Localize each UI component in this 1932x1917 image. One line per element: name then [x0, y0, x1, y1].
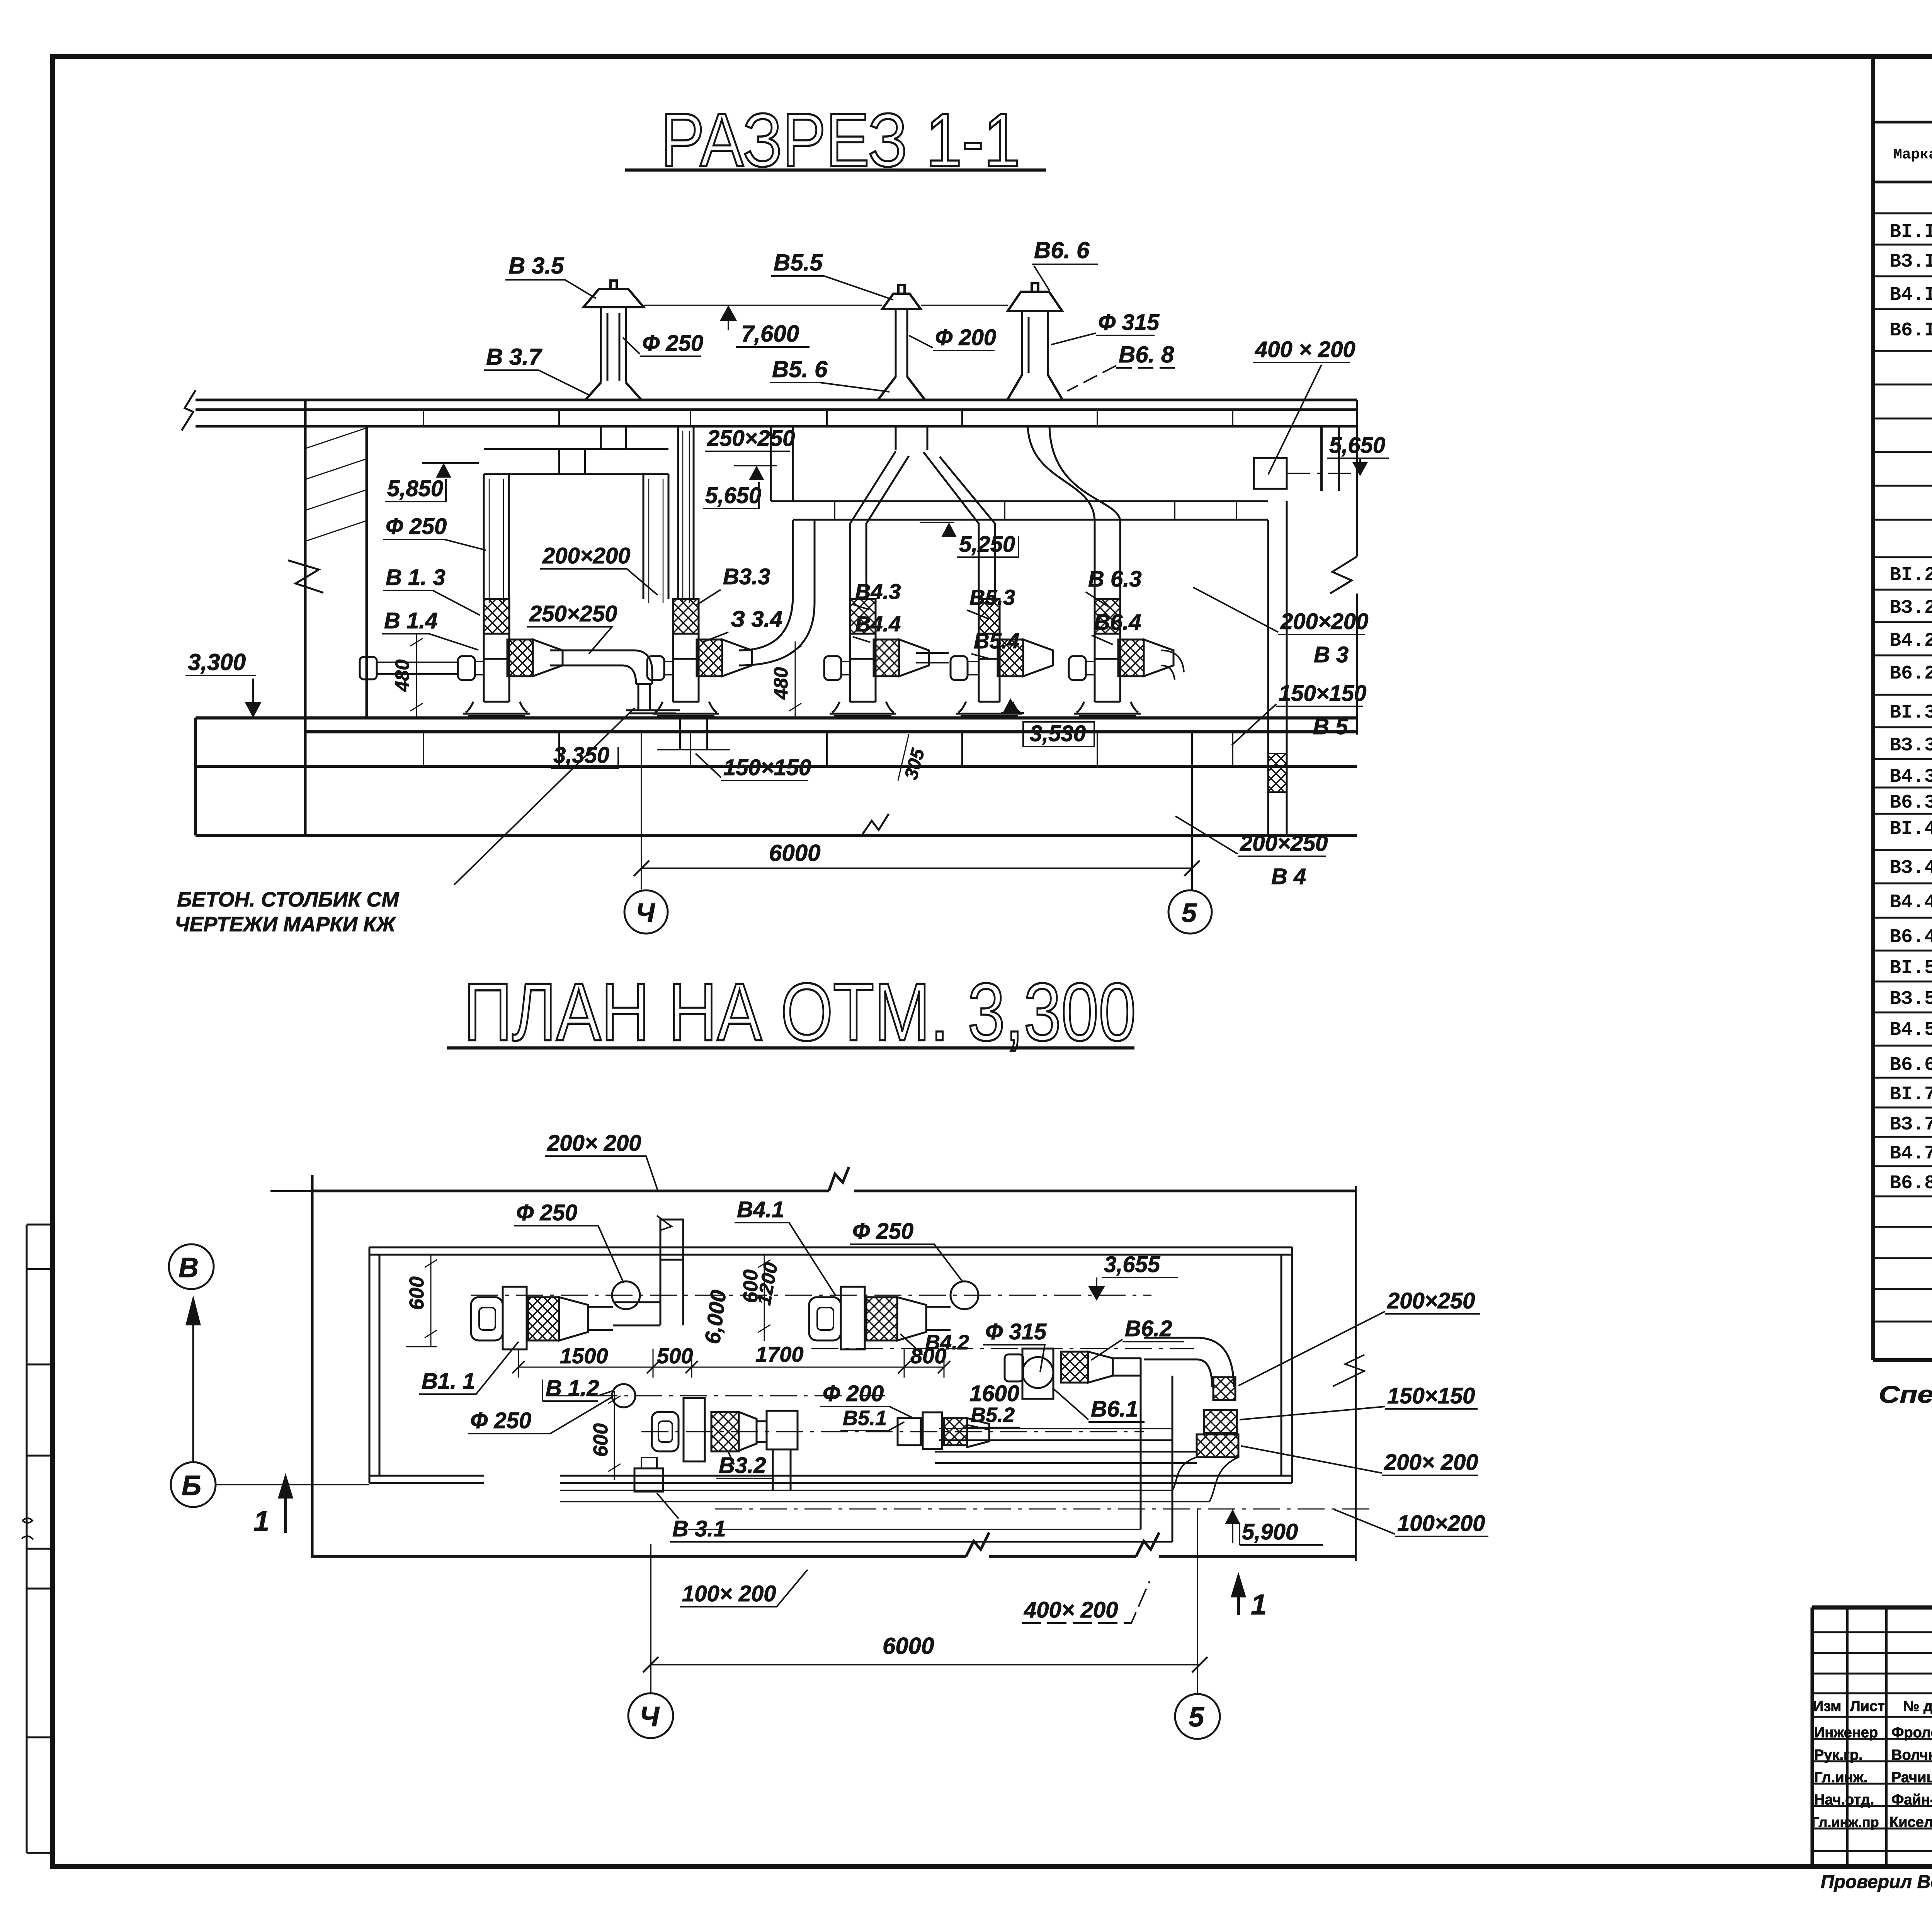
svg-text:В6.6: В6.6 [1889, 1054, 1932, 1076]
svg-text:1: 1 [1251, 1589, 1267, 1621]
svg-text:Ф 250: Ф 250 [516, 1200, 577, 1225]
svg-text:З 3.4: З 3.4 [731, 607, 782, 632]
dimension chain line [519, 1367, 944, 1368]
fan В4.1 motor [809, 1297, 841, 1340]
svg-text:200× 200: 200× 200 [547, 1131, 641, 1156]
svg-text:3,530: 3,530 [1030, 721, 1086, 746]
duct down-run 400x200 [1141, 1358, 1172, 1542]
svg-text:В 5: В 5 [1313, 714, 1348, 739]
svg-text:1700: 1700 [755, 1342, 804, 1366]
axis line 3,655 duct [811, 1348, 1194, 1349]
inner room bottom wall [369, 1476, 1292, 1483]
outlet cone [533, 640, 563, 676]
floor slab [196, 718, 1357, 835]
exhaust stack В3.5 pipe [601, 307, 626, 383]
left rows [1812, 1632, 1932, 1851]
duct В4.1 run [926, 1307, 951, 1330]
fan casing [979, 634, 1000, 702]
fan casing [673, 634, 699, 702]
400x200 wall box [1254, 458, 1287, 489]
svg-text:Ф 200: Ф 200 [823, 1381, 884, 1406]
motor shaft [1086, 662, 1095, 675]
svg-text:400 × 200: 400 × 200 [1255, 337, 1355, 362]
svg-text:200× 200: 200× 200 [1384, 1450, 1478, 1475]
svg-text:В6.8: В6.8 [1889, 1172, 1932, 1194]
svg-text:7,600: 7,600 [741, 321, 799, 347]
outlet cone [1023, 640, 1053, 676]
svg-text:Ф 250: Ф 250 [642, 331, 703, 356]
fan motor [1069, 656, 1086, 680]
svg-text:200×200: 200×200 [1280, 609, 1368, 634]
svg-text:ВI.2: ВI.2 [1889, 564, 1932, 586]
outlet cone [899, 640, 929, 676]
fan В4.1 flex [866, 1297, 897, 1340]
svg-text:ВЗ.3: ВЗ.3 [1889, 735, 1932, 757]
svg-text:В 6.3: В 6.3 [1088, 566, 1142, 592]
svg-text:200×200: 200×200 [542, 543, 630, 568]
hatch box 200x200 [1197, 1434, 1238, 1457]
svg-text:480: 480 [770, 667, 792, 700]
7,600 level line [644, 305, 1008, 306]
plan grid circle 5 [1175, 1694, 1220, 1739]
svg-text:В1. 1: В1. 1 [422, 1369, 475, 1394]
outlet flex [697, 640, 722, 676]
svg-text:250×250: 250×250 [707, 426, 795, 451]
svg-text:Рачицкий: Рачицкий [1891, 1769, 1932, 1786]
left wall break [288, 560, 323, 593]
flex insert [673, 599, 699, 634]
svg-text:Рук.гр.: Рук.гр. [1814, 1747, 1863, 1763]
В1 discharge duct [550, 650, 652, 684]
svg-text:Фролова: Фролова [1891, 1725, 1932, 1741]
duct cross circle Ф250 right [951, 1281, 978, 1309]
svg-text:ВI.4: ВI.4 [1889, 818, 1932, 840]
duct riser to stack В3.5 [601, 426, 626, 449]
svg-text:Волчкина: Волчкина [1891, 1747, 1932, 1763]
duct В5 riser [923, 452, 995, 599]
svg-text:200×250: 200×250 [1387, 1288, 1475, 1313]
duct 250x250 riser at left of run [771, 426, 793, 501]
duct В6 to down-run [1113, 1358, 1141, 1376]
fan В5 unit [898, 1418, 921, 1445]
svg-text:В4.1: В4.1 [737, 1197, 784, 1222]
fold strip marks [22, 1518, 33, 1539]
svg-text:Ф 250: Ф 250 [470, 1408, 531, 1433]
svg-text:ВЗ.7: ВЗ.7 [1889, 1114, 1932, 1136]
svg-text:Ч: Ч [636, 898, 655, 928]
svg-text:3,300: 3,300 [188, 649, 246, 675]
svg-text:150×150: 150×150 [1387, 1383, 1475, 1408]
hatch box 150x150 [1204, 1410, 1237, 1433]
svg-text:В 1.4: В 1.4 [384, 608, 438, 633]
flex insert [1095, 599, 1120, 634]
svg-text:В6.3: В6.3 [1889, 792, 1932, 814]
svg-text:В6.2: В6.2 [1125, 1316, 1172, 1341]
svg-text:ВI.3: ВI.3 [1889, 702, 1932, 724]
fan base [653, 702, 719, 716]
roof left break [182, 390, 196, 430]
svg-text:Ч: Ч [639, 1701, 660, 1732]
svg-text:150×150: 150×150 [723, 755, 811, 780]
section cut mark left [284, 1490, 287, 1533]
svg-text:Ф 315: Ф 315 [1098, 310, 1160, 335]
svg-text:6000: 6000 [769, 840, 820, 866]
duct joint ticks [559, 449, 585, 474]
svg-text:В5.5: В5.5 [774, 250, 823, 276]
svg-text:ПЛАН НА ОТМ. 3,300: ПЛАН НА ОТМ. 3,300 [464, 966, 1136, 1058]
plan grid circle 4 [628, 1693, 673, 1738]
svg-text:В4.5: В4.5 [1889, 1019, 1932, 1041]
duct to riser [588, 1307, 613, 1330]
outer wall bottom [311, 1533, 1356, 1556]
svg-text:Файн-Гирш: Файн-Гирш [1891, 1792, 1932, 1808]
svg-text:В 3: В 3 [1314, 642, 1349, 667]
svg-text:ВЗ.2: ВЗ.2 [1889, 597, 1932, 619]
7,600 level mark [728, 305, 729, 330]
svg-text:В4.3: В4.3 [1889, 766, 1932, 788]
circle В1.2 [612, 1384, 635, 1407]
svg-text:3,655: 3,655 [1104, 1252, 1160, 1277]
fan В1.1 flex [528, 1297, 559, 1340]
fan motor [951, 656, 968, 680]
flex insert [979, 599, 1000, 634]
svg-text:В 3.5: В 3.5 [509, 253, 565, 279]
grid circle 5 [1168, 890, 1212, 934]
left wall [305, 400, 367, 835]
svg-text:В6.4: В6.4 [1889, 926, 1932, 948]
В4 discharge stub [916, 653, 949, 663]
stack В6.6 base flare [1007, 375, 1063, 400]
duct В1 riser left leg [484, 474, 509, 599]
svg-text:Ф 250: Ф 250 [852, 1219, 913, 1244]
duct cross circle Ф250 [612, 1281, 640, 1309]
svg-text:Б: Б [182, 1470, 201, 1501]
svg-text:В6.2: В6.2 [1889, 663, 1932, 685]
axis line lower row [546, 1395, 885, 1397]
roof slab [196, 400, 1357, 426]
svg-text:1500: 1500 [560, 1344, 608, 1368]
svg-text:5,900: 5,900 [1242, 1519, 1298, 1544]
Y-junction to stack В5.5 [896, 426, 927, 450]
axis line 5,900 duct [715, 1509, 1376, 1510]
left columns [1847, 1607, 1932, 1866]
duct В3 riser 250x250 [678, 426, 694, 599]
fan base [830, 702, 896, 716]
fan casing [484, 634, 509, 702]
duct В6 riser curve [1028, 426, 1120, 599]
roof slab joint ticks [423, 410, 1233, 426]
svg-text:600: 600 [406, 1276, 428, 1310]
svg-text:В5. 6: В5. 6 [772, 356, 828, 382]
svg-text:500: 500 [657, 1344, 693, 1368]
svg-text:В 4: В 4 [1271, 864, 1306, 889]
svg-text:Ф 250: Ф 250 [386, 514, 447, 539]
S-bend to bottom duct [1172, 1457, 1238, 1502]
svg-text:Изм: Изм [1813, 1698, 1841, 1715]
outlet flex [998, 640, 1023, 676]
В6 discharge curve [1161, 650, 1184, 680]
fan casing [850, 634, 876, 702]
svg-text:ВЗ.5: ВЗ.5 [1889, 988, 1932, 1010]
axis line upper row [471, 1295, 1151, 1296]
floor joint ticks [423, 732, 1233, 766]
svg-text:5,250: 5,250 [959, 532, 1015, 557]
stack В3.5 base flare [585, 383, 641, 400]
lower duct lines [935, 1429, 1197, 1463]
exhaust stack В6.6 pipe [1022, 311, 1048, 375]
inner room right wall [1281, 1247, 1292, 1483]
svg-text:600: 600 [590, 1423, 612, 1457]
svg-text:В3.3: В3.3 [723, 564, 770, 589]
horizontal duct 5.250 run [793, 501, 1268, 520]
flex insert [850, 599, 876, 634]
left wall hatch [306, 428, 366, 541]
svg-text:В4.2: В4.2 [925, 1331, 969, 1354]
section cut mark right [1237, 1588, 1240, 1615]
svg-text:3,350: 3,350 [553, 743, 609, 768]
svg-text:В 1. 3: В 1. 3 [386, 565, 446, 590]
svg-text:Проверил Волчкина: Проверил Волчкина [1821, 1872, 1932, 1892]
svg-text:В4.I: В4.I [1889, 284, 1932, 306]
elbow box В3 [767, 1411, 798, 1449]
stack В5.5 umbrella cap [882, 285, 921, 309]
fan motor [458, 656, 475, 680]
svg-text:Спецификацию на установку В: Спецификацию на установку В5 см. чертеж … [1879, 1381, 1932, 1408]
fan motor [824, 656, 841, 680]
svg-text:5,650: 5,650 [1329, 433, 1385, 458]
В3.1 wall box [634, 1468, 663, 1492]
fan В1.1 cone [559, 1297, 588, 1340]
svg-text:В 1.2: В 1.2 [546, 1376, 599, 1401]
motor shaft [968, 662, 979, 675]
svg-text:100×200: 100×200 [1397, 1511, 1485, 1536]
svg-text:Ф 315: Ф 315 [985, 1319, 1047, 1344]
inner room left wall [369, 1247, 379, 1483]
fan В3 cone [739, 1412, 757, 1451]
motor shaft [841, 662, 850, 675]
fan В6 housing [1022, 1357, 1053, 1388]
svg-text:Марка: Марка [1893, 146, 1932, 163]
svg-text:В6.I: В6.I [1889, 320, 1932, 342]
svg-text:5: 5 [1182, 898, 1197, 928]
stack В3.5 umbrella cap [583, 281, 644, 307]
fan base [956, 702, 1022, 716]
bottom duct bundle [560, 1490, 1209, 1502]
svg-text:Киселева: Киселева [1889, 1814, 1932, 1830]
svg-text:200×250: 200×250 [1240, 831, 1328, 856]
svg-text:№ докум.: № докум. [1903, 1698, 1932, 1715]
duct В1 top run [484, 449, 668, 474]
fan В1.1 motor [471, 1297, 503, 1340]
outlet cone [722, 640, 752, 676]
svg-text:В5.1: В5.1 [843, 1407, 887, 1430]
svg-text:Нач.отд.: Нач.отд. [1814, 1792, 1874, 1808]
outer wall top [311, 1167, 1357, 1191]
duct В1 right leg [643, 474, 668, 599]
outlet cone [1144, 640, 1173, 676]
svg-text:В3.2: В3.2 [719, 1453, 766, 1478]
svg-text:Ф 200: Ф 200 [935, 325, 996, 350]
grid circle Б [171, 1462, 216, 1507]
concrete post [626, 684, 680, 713]
svg-text:400× 200: 400× 200 [1024, 1597, 1118, 1623]
fan В4.1 housing [841, 1287, 865, 1349]
duct В4 riser [850, 451, 909, 599]
duct В3 run [757, 1421, 767, 1442]
duct 200x250 run and elbow [1144, 1338, 1197, 1359]
svg-text:БЕТОН. СТОЛБИК СМ: БЕТОН. СТОЛБИК СМ [177, 888, 399, 911]
motor shaft [664, 662, 673, 675]
fan В3 motor [652, 1412, 679, 1451]
svg-text:250×250: 250×250 [529, 601, 617, 626]
svg-text:В 3.1: В 3.1 [672, 1516, 726, 1541]
spec table outer border [1873, 59, 1932, 1360]
flex insert [484, 599, 509, 634]
fan casing [1095, 634, 1120, 702]
duct 100x200/400x200 run [688, 1529, 1172, 1542]
motor shaft [475, 662, 484, 675]
fan В6 flex [1061, 1352, 1088, 1383]
top-left extension [270, 1190, 311, 1192]
fan base [1074, 702, 1141, 716]
svg-text:В4.2: В4.2 [1889, 630, 1932, 652]
table header band lines [1873, 122, 1932, 182]
svg-text:6000: 6000 [883, 1633, 934, 1659]
fan В4.1 cone [897, 1297, 926, 1340]
svg-text:5,650: 5,650 [705, 483, 761, 508]
svg-text:ВI.7: ВI.7 [1889, 1084, 1932, 1106]
svg-text:ЧЕРТЕЖИ МАРКИ КЖ: ЧЕРТЕЖИ МАРКИ КЖ [175, 913, 396, 936]
svg-text:Инженер: Инженер [1814, 1725, 1878, 1741]
svg-text:В 3.7: В 3.7 [486, 344, 543, 370]
hatch box 200x250 [1213, 1377, 1235, 1400]
svg-text:ВI.I: ВI.I [1889, 221, 1932, 243]
duct elbow down right [1268, 501, 1287, 835]
exhaust stack В5.5 pipe [896, 309, 907, 377]
В1 inlet stub [360, 657, 377, 679]
svg-text:1: 1 [253, 1505, 269, 1537]
svg-text:В6. 8: В6. 8 [1119, 342, 1174, 367]
svg-text:Лист: Лист [1850, 1698, 1885, 1715]
right wall column [1321, 426, 1339, 491]
floor duct 150x150 [657, 718, 730, 750]
outlet flex [874, 640, 899, 676]
fan В3 housing [684, 1398, 705, 1461]
outer wall left [311, 1175, 314, 1556]
svg-text:ВЗ.I: ВЗ.I [1889, 251, 1932, 273]
svg-text:Гл.инж.пр: Гл.инж.пр [1811, 1814, 1879, 1830]
svg-text:В5.2: В5.2 [971, 1403, 1015, 1427]
svg-text:ВI.5: ВI.5 [1889, 957, 1932, 979]
table row lines [1873, 213, 1932, 1322]
svg-text:5,850: 5,850 [387, 476, 443, 501]
В3 discharge curve up [739, 520, 815, 665]
inner room top wall [369, 1247, 1292, 1255]
svg-text:480: 480 [391, 659, 413, 692]
fan motor [647, 656, 664, 680]
right break line [1330, 400, 1357, 735]
flex joint on down duct [1268, 754, 1287, 792]
wall riser duct [660, 1220, 683, 1260]
svg-text:150×150: 150×150 [1279, 681, 1366, 706]
title block outer [1812, 1606, 1932, 1610]
stack В6.6 umbrella cap [1008, 283, 1062, 311]
svg-text:100× 200: 100× 200 [682, 1581, 776, 1606]
svg-text:В4.7: В4.7 [1889, 1143, 1932, 1165]
fan В3 flex [711, 1412, 739, 1451]
fan В1.1 housing [503, 1287, 527, 1349]
fan base [463, 702, 530, 716]
axis arrow Б-В [192, 1314, 194, 1462]
grid circle 4 [624, 890, 668, 934]
svg-text:5: 5 [1189, 1702, 1204, 1733]
fan В6 cone [1088, 1352, 1113, 1383]
stack В5.5 base flare [878, 377, 925, 400]
svg-text:В6.1: В6.1 [1091, 1397, 1138, 1422]
right extension line [1333, 1186, 1364, 1561]
grid circle В [169, 1244, 214, 1289]
svg-text:ВЗ.4: ВЗ.4 [1889, 857, 1932, 879]
svg-text:В: В [179, 1252, 199, 1283]
outlet flex [1118, 640, 1144, 676]
outlet flex [507, 640, 533, 676]
svg-text:1600: 1600 [969, 1381, 1019, 1406]
svg-text:В6. 6: В6. 6 [1034, 237, 1090, 263]
left fold strip [27, 1225, 53, 1853]
duct В3 down [773, 1449, 791, 1490]
svg-text:В4.4: В4.4 [1889, 891, 1932, 913]
svg-text:Гл.инж.: Гл.инж. [1814, 1769, 1867, 1786]
elbow to wall riser [613, 1260, 683, 1325]
